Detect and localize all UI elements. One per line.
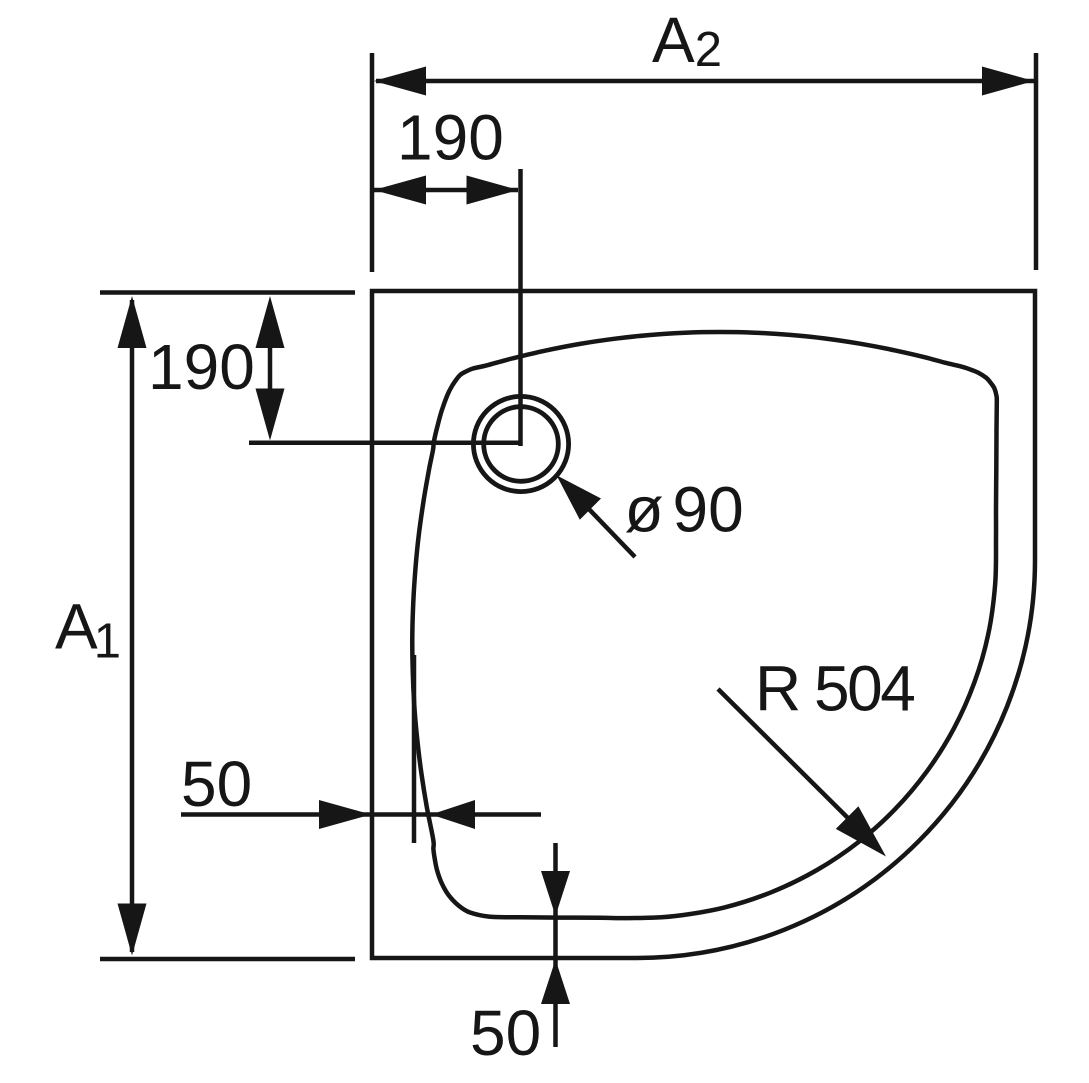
A2 dimension line: [376, 79, 1034, 84]
svg-text:90: 90: [673, 474, 744, 546]
svg-text:A1: A1: [55, 591, 121, 669]
A2 left arrowhead: [374, 67, 426, 96]
50 bottom up arrowhead: [541, 960, 570, 1005]
drain inner circle: [484, 407, 559, 482]
drain outer circle: [473, 396, 568, 491]
A2 right arrowhead: [982, 67, 1034, 96]
190 top right arrowhead: [467, 176, 519, 205]
svg-text:50: 50: [470, 997, 541, 1069]
190 top extension line (to drain centre): [518, 169, 523, 446]
diameter leader line: [585, 505, 635, 557]
50 left right-pointing arrowhead: [319, 800, 371, 829]
190 vertical dimension shaft: [268, 340, 273, 397]
50 left tick: [412, 655, 417, 843]
tray outer outline: [372, 291, 1035, 958]
svg-text:R 504: R 504: [755, 653, 914, 725]
top-left extension line (tray top produced): [100, 290, 355, 295]
50 bottom down arrowhead: [541, 871, 570, 916]
50 left left-pointing arrowhead: [431, 800, 475, 829]
190 top dimension line: [374, 188, 518, 193]
radius leader line: [718, 689, 860, 830]
radius leader arrowhead: [836, 806, 886, 856]
svg-text:A2: A2: [652, 4, 722, 77]
190 top left arrowhead: [374, 176, 426, 205]
190 vertical down arrowhead: [256, 389, 285, 441]
svg-text:190: 190: [148, 331, 255, 403]
A1 down arrowhead: [118, 904, 147, 956]
A1 bottom extension line: [100, 957, 355, 962]
50 bottom dimension line: [553, 843, 558, 1047]
diameter leader arrowhead: [557, 475, 602, 520]
svg-text:50: 50: [181, 748, 252, 820]
A1 dimension line: [130, 300, 135, 952]
drain centre horizontal line: [249, 440, 522, 445]
A1 up arrowhead: [118, 296, 147, 348]
svg-text:ø: ø: [625, 474, 664, 546]
A2 extension line left: [370, 53, 375, 272]
tray inner rim: [412, 332, 997, 918]
A2 extension line right: [1034, 53, 1039, 270]
190 vertical up arrowhead: [256, 296, 285, 348]
svg-text:190: 190: [397, 102, 504, 174]
50 left dimension line: [181, 812, 541, 817]
